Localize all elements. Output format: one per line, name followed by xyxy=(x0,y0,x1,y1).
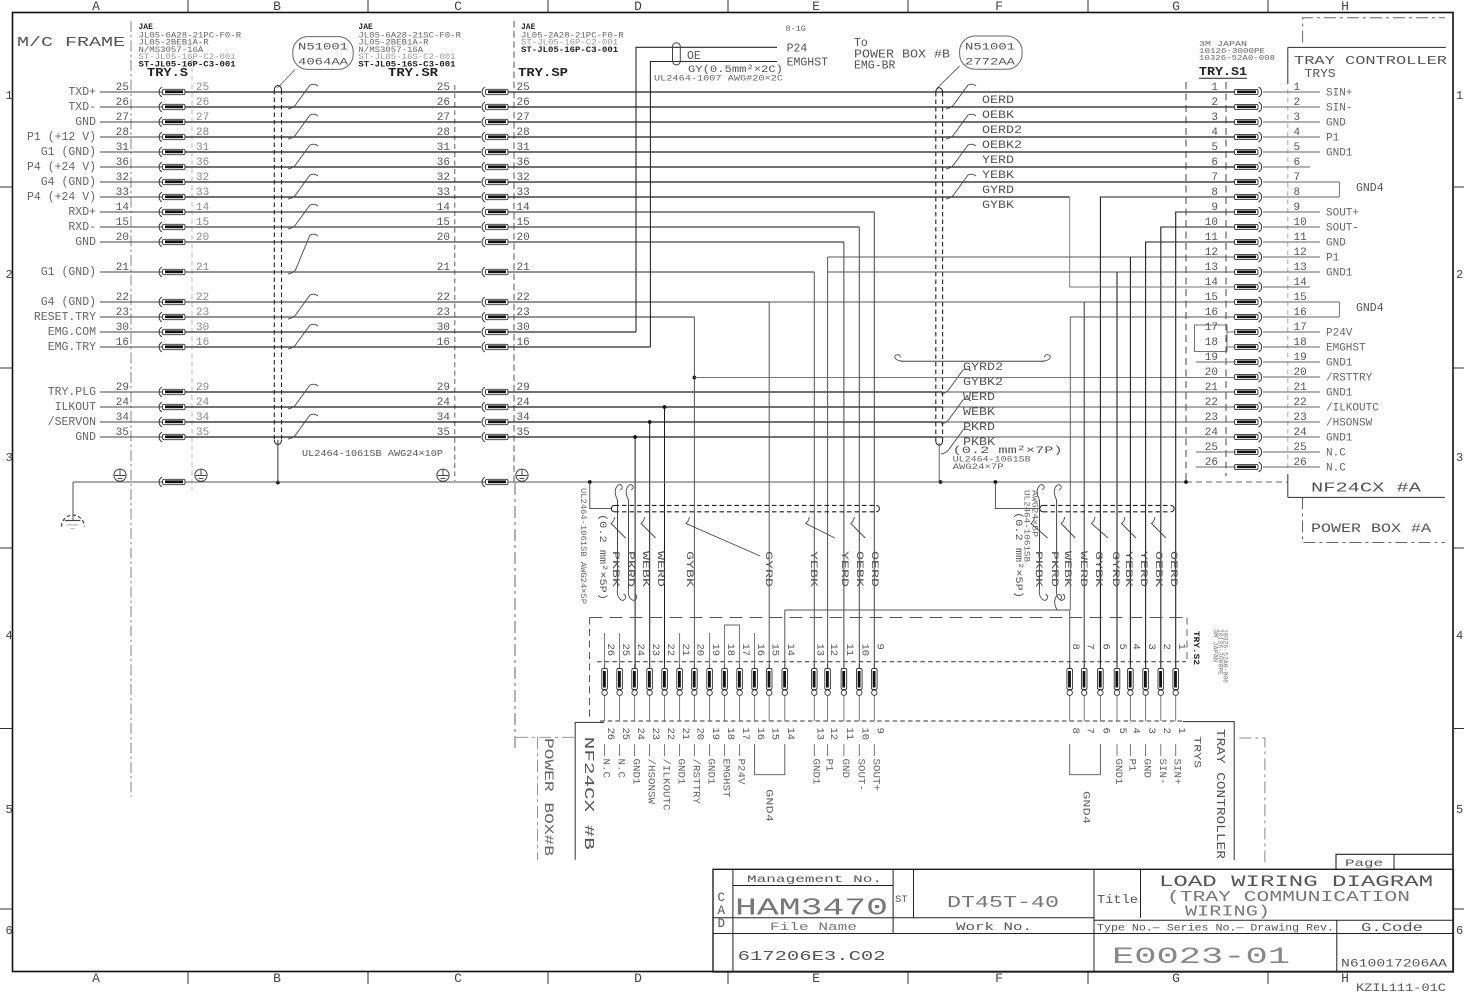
svg-text:2772AA: 2772AA xyxy=(965,57,1016,69)
svg-text:E0023-01: E0023-01 xyxy=(1112,944,1290,970)
svg-text:24: 24 xyxy=(634,728,646,741)
svg-text:SIN-: SIN- xyxy=(1326,102,1352,114)
TRAY CONTROLLER TRYS bottom unit box xyxy=(1183,722,1234,861)
svg-text:14: 14 xyxy=(784,644,796,657)
wire GND1 row to TRY.S1 pin 13 with branch to TRY.S2 pin 5 xyxy=(828,271,1236,273)
svg-text:GND1: GND1 xyxy=(1326,387,1353,399)
grid column tick marks bottom xyxy=(187,972,189,985)
TRY.S2 connector face dashed line xyxy=(597,661,1186,663)
svg-text:/HSONSW: /HSONSW xyxy=(1326,417,1373,429)
TRY.S1 cable side dashed boundary xyxy=(1185,82,1187,481)
svg-text:GND1: GND1 xyxy=(705,759,717,785)
svg-text:GND1: GND1 xyxy=(630,759,642,785)
svg-text:E: E xyxy=(812,0,820,14)
svg-text:YEBK: YEBK xyxy=(807,551,819,588)
bottom enclosure chain line xyxy=(1239,738,1265,866)
wire G1 GND drop to TRY.S2 pin 13 xyxy=(813,272,815,669)
file name header xyxy=(713,933,1453,935)
svg-text:GYBK: GYBK xyxy=(683,551,695,588)
svg-text:UL2464-1007 AWG#20×2C: UL2464-1007 AWG#20×2C xyxy=(654,75,783,84)
svg-text:9: 9 xyxy=(874,728,886,734)
TRY.S2 right dashed boundary xyxy=(1186,618,1188,662)
ground bus wire xyxy=(73,481,1186,483)
wire EMG.TRY up to EMGHST xyxy=(650,62,777,348)
GND4 bracket TRY.S1 pins 15-16 xyxy=(1338,302,1340,317)
svg-text:WERD: WERD xyxy=(654,551,666,587)
svg-text:TRY.S1: TRY.S1 xyxy=(1199,66,1247,79)
svg-text:7: 7 xyxy=(1211,172,1218,184)
svg-text:OEBK: OEBK xyxy=(1152,551,1164,588)
svg-text:PKRD: PKRD xyxy=(963,422,995,434)
shield drain hook on GND4 link wire xyxy=(1055,595,1062,610)
cable jacket dashed pair TRY.SP to TRY.S1 xyxy=(935,92,937,441)
svg-text:TRY.SP: TRY.SP xyxy=(518,66,568,80)
wire SOUT- TRY.S1 pin 10 to TRY.S2 pin 2 xyxy=(1161,227,1236,669)
svg-text:24: 24 xyxy=(634,644,646,657)
svg-text:B: B xyxy=(273,971,281,986)
svg-text:P1: P1 xyxy=(1326,132,1340,144)
ground bus dashed continuation into NF24CX #A xyxy=(1186,481,1288,483)
svg-text:B: B xyxy=(273,0,281,14)
svg-text:3: 3 xyxy=(6,451,13,465)
svg-text:13: 13 xyxy=(814,728,826,741)
svg-text:24: 24 xyxy=(1205,427,1219,439)
svg-text:19: 19 xyxy=(709,728,721,741)
svg-text:21: 21 xyxy=(437,262,451,274)
ground bus junction dots xyxy=(588,480,592,484)
svg-text:11: 11 xyxy=(843,728,855,741)
left band shield drain wire xyxy=(590,482,612,509)
POWER BOX #A enclosure chain xyxy=(1303,497,1445,542)
svg-text:OERD: OERD xyxy=(868,551,880,587)
svg-text:5: 5 xyxy=(1211,142,1218,154)
svg-text:1: 1 xyxy=(6,89,13,103)
svg-text:2: 2 xyxy=(6,268,13,282)
svg-text:15: 15 xyxy=(1205,292,1218,304)
svg-text:6: 6 xyxy=(1211,157,1218,169)
svg-text:OE: OE xyxy=(687,50,701,63)
svg-text:D: D xyxy=(634,971,642,986)
svg-text:SIN-: SIN- xyxy=(1156,759,1168,785)
spare wire with curled ends near TRY.S1 pin 19 row xyxy=(895,355,903,362)
svg-text:POWER BOX #A: POWER BOX #A xyxy=(1311,522,1432,536)
svg-text:PKBK: PKBK xyxy=(963,437,995,449)
svg-text:EMGHST: EMGHST xyxy=(720,759,732,798)
svg-text:SIN+: SIN+ xyxy=(1326,87,1352,99)
TRY.S connector rear dashed boundary xyxy=(191,59,193,490)
svg-text:NF24CX #A: NF24CX #A xyxy=(1311,481,1422,497)
svg-text:UL2464-1061SB: UL2464-1061SB xyxy=(1022,490,1031,562)
wire ILKOUT row 24 junction to TRY.S2 pin 22 xyxy=(663,405,667,409)
TRY.SR connector front dashed boundary xyxy=(454,85,456,481)
svg-text:GYRD: GYRD xyxy=(982,185,1014,197)
svg-text:1: 1 xyxy=(1175,728,1187,734)
svg-text:GYRD: GYRD xyxy=(762,551,774,587)
svg-text:P24V: P24V xyxy=(1326,327,1353,339)
svg-text:(0.2 mm²×5P): (0.2 mm²×5P) xyxy=(596,514,608,600)
svg-text:GND1: GND1 xyxy=(1326,432,1353,444)
svg-text:6: 6 xyxy=(1456,924,1463,938)
M/C frame boundary chain line xyxy=(130,21,132,797)
svg-text:20: 20 xyxy=(437,232,450,244)
svg-text:DT45T-40: DT45T-40 xyxy=(947,894,1059,913)
svg-text:OEBK: OEBK xyxy=(853,551,865,588)
svg-text:OEBK2: OEBK2 xyxy=(982,140,1022,152)
TRY.S1 connector dashed boundary xyxy=(1225,82,1227,476)
wire GND row 35 junction to TRY.S2 pin 24 xyxy=(633,435,637,439)
svg-text:5: 5 xyxy=(1116,644,1128,650)
wire stub TRY.S1 pin 18 xyxy=(1227,346,1236,348)
svg-text:GND1: GND1 xyxy=(809,759,821,785)
svg-text:/SERVON: /SERVON xyxy=(48,416,96,429)
ground bus connector pill at TRY.S xyxy=(159,477,162,487)
svg-text:NF24CX #B: NF24CX #B xyxy=(580,737,595,850)
title block outline xyxy=(713,869,1453,972)
wire RESET.TRY drop to TRY.S2 pin 20 with branch to TRY.S1 pin 20 xyxy=(693,317,695,669)
wire RXD- drop to TRY.S2 pin 10 xyxy=(858,227,860,669)
grid row tick marks right xyxy=(1453,186,1464,188)
svg-text:2: 2 xyxy=(1160,644,1172,650)
svg-text:RXD-: RXD- xyxy=(68,221,96,234)
wire EMG.COM up to P24 xyxy=(636,47,777,332)
svg-text:P4 (+24 V): P4 (+24 V) xyxy=(27,161,96,174)
protective earth symbols on ground bus xyxy=(114,469,126,481)
svg-text:ST: ST xyxy=(895,894,908,906)
svg-text:13: 13 xyxy=(814,644,826,657)
svg-text:OERD2: OERD2 xyxy=(982,125,1022,137)
svg-text:C: C xyxy=(718,891,726,905)
svg-text:P1 (+12 V): P1 (+12 V) xyxy=(27,131,96,144)
svg-text:GND: GND xyxy=(75,116,96,129)
svg-text:SOUT-: SOUT- xyxy=(1326,222,1359,234)
wire GND4 row16 feed TRY.S1 pin 16 from TRY.S2 pin 8 column xyxy=(1070,317,1236,610)
wire G4 GND drop to TRY.S2 pin 15 xyxy=(768,302,770,669)
svg-text:19: 19 xyxy=(709,644,721,657)
svg-text:GND4: GND4 xyxy=(1356,302,1384,315)
svg-text:10: 10 xyxy=(859,644,871,657)
svg-text:A: A xyxy=(92,971,100,986)
svg-text:23: 23 xyxy=(649,644,661,657)
cable shield drain to ground bus xyxy=(277,440,279,482)
svg-text:OERD: OERD xyxy=(982,95,1014,107)
branch GND4 to TRY.S2 pin 7 xyxy=(1083,302,1085,669)
svg-text:TRYS: TRYS xyxy=(1305,68,1336,81)
svg-text:GYBK: GYBK xyxy=(982,200,1014,212)
svg-text:12: 12 xyxy=(1205,247,1218,259)
svg-text:5: 5 xyxy=(6,803,13,817)
svg-text:Work No.: Work No. xyxy=(956,922,1032,934)
svg-text:10326-52A0-008: 10326-52A0-008 xyxy=(1199,55,1275,63)
svg-text:20: 20 xyxy=(694,644,706,657)
svg-text:GND1: GND1 xyxy=(1326,267,1353,279)
svg-text:17: 17 xyxy=(1205,322,1218,334)
svg-text:TRY.S: TRY.S xyxy=(147,66,188,80)
svg-text:H: H xyxy=(1341,971,1349,986)
svg-text:36: 36 xyxy=(437,157,450,169)
svg-text:ILKOUT: ILKOUT xyxy=(55,401,97,414)
svg-text:10: 10 xyxy=(1205,217,1218,229)
svg-text:22: 22 xyxy=(437,292,450,304)
title block CAD column xyxy=(732,869,734,972)
svg-text:YERD: YERD xyxy=(1137,551,1149,587)
svg-text:12: 12 xyxy=(827,644,839,657)
svg-text:5: 5 xyxy=(1116,728,1128,734)
svg-text:GND: GND xyxy=(1326,117,1346,129)
svg-text:6: 6 xyxy=(1100,728,1112,734)
svg-text:2: 2 xyxy=(1160,728,1172,734)
svg-text:File Name: File Name xyxy=(770,922,857,934)
svg-text:25: 25 xyxy=(437,82,450,94)
svg-text:PKRD: PKRD xyxy=(1048,551,1060,587)
svg-text:21: 21 xyxy=(1205,382,1219,394)
svg-text:EMG-BR: EMG-BR xyxy=(854,60,896,73)
svg-text:22: 22 xyxy=(664,644,676,657)
svg-text:17: 17 xyxy=(739,728,751,741)
svg-text:8: 8 xyxy=(1069,644,1081,650)
twisted pair marks below left band xyxy=(611,517,626,538)
TRAY CONTROLLER enclosure chain line top xyxy=(1303,18,1445,43)
svg-text:30: 30 xyxy=(437,322,450,334)
svg-text:ST-JL05-16P-C3-001: ST-JL05-16P-C3-001 xyxy=(521,46,618,55)
svg-text:WERD: WERD xyxy=(963,392,995,404)
svg-text:14: 14 xyxy=(437,202,451,214)
svg-text:PKBK: PKBK xyxy=(609,551,621,588)
svg-text:D: D xyxy=(634,0,642,14)
svg-text:3: 3 xyxy=(1145,644,1157,650)
svg-text:TRY.SR: TRY.SR xyxy=(388,66,439,80)
svg-text:12: 12 xyxy=(827,728,839,741)
svg-text:/RSTTRY: /RSTTRY xyxy=(689,759,701,805)
wire /SERVON row 34 junction to TRY.S2 pin 23 xyxy=(648,420,652,424)
svg-text:E: E xyxy=(812,971,820,986)
svg-text:N51001: N51001 xyxy=(965,42,1015,54)
svg-text:SOUT-: SOUT- xyxy=(854,759,866,792)
svg-text:3: 3 xyxy=(1211,112,1218,124)
TRY.S2 outer dashed boundary xyxy=(590,617,1187,619)
GND4 bracket TRY.S2 pins 6-8 xyxy=(1070,744,1101,775)
TRY.S1 mating side dashed boundary xyxy=(1287,89,1289,472)
wire GND TRY.S1 pin 11 to TRY.S2 pin 3 xyxy=(1146,242,1236,669)
svg-text:HAM3470: HAM3470 xyxy=(735,896,888,923)
svg-text:P24: P24 xyxy=(787,43,808,56)
grid column tick marks top xyxy=(187,0,189,13)
svg-text:7: 7 xyxy=(1083,644,1095,650)
svg-text:23: 23 xyxy=(649,728,661,741)
svg-text:F: F xyxy=(995,0,1003,14)
TRAY CONTROLLER TRYS unit box xyxy=(1288,46,1446,48)
svg-text:21: 21 xyxy=(679,644,691,657)
svg-text:33: 33 xyxy=(437,187,450,199)
spare pair PKBK PKRD dangling wires right band xyxy=(1037,485,1044,500)
ground bus connector pill at TRY.SR xyxy=(482,477,485,487)
GND4 bracket TRY.S1 pins 7-8 xyxy=(1338,182,1340,197)
cable jacket band to TRY.S2 right group xyxy=(1043,504,1171,506)
svg-text:16: 16 xyxy=(754,728,766,741)
svg-text:6: 6 xyxy=(1100,644,1112,650)
svg-text:20: 20 xyxy=(1205,367,1218,379)
svg-text:/HSONSW: /HSONSW xyxy=(645,759,657,805)
svg-text:10: 10 xyxy=(859,728,871,741)
svg-text:15: 15 xyxy=(768,644,780,657)
svg-text:TRY.PLG: TRY.PLG xyxy=(48,386,96,399)
G code header xyxy=(1336,920,1338,972)
svg-text:15: 15 xyxy=(768,728,780,741)
svg-text:P4 (+24 V): P4 (+24 V) xyxy=(27,191,96,204)
svg-text:26: 26 xyxy=(604,644,616,657)
svg-text:TRY.S2: TRY.S2 xyxy=(1191,631,1201,665)
svg-text:/RSTTRY: /RSTTRY xyxy=(1326,372,1373,384)
svg-text:23: 23 xyxy=(1205,412,1218,424)
OE cable jacket symbol xyxy=(673,43,681,65)
svg-text:/ILKOUTC: /ILKOUTC xyxy=(660,759,672,811)
svg-text:16: 16 xyxy=(754,644,766,657)
svg-text:WERD: WERD xyxy=(1077,551,1089,587)
svg-text:N.C: N.C xyxy=(615,759,627,779)
svg-text:POWER BOX#B: POWER BOX#B xyxy=(541,738,555,857)
svg-text:11: 11 xyxy=(1205,232,1219,244)
svg-text:WEBK: WEBK xyxy=(639,551,651,588)
svg-text:13: 13 xyxy=(1205,262,1218,274)
svg-text:GYRD2: GYRD2 xyxy=(963,362,1003,374)
svg-text:N.C: N.C xyxy=(1326,447,1346,459)
svg-text:27: 27 xyxy=(437,112,450,124)
P24V EMGHST pair bracket TRY.S1 pins 17-18 xyxy=(1195,325,1228,352)
svg-text:EMGHST: EMGHST xyxy=(1326,342,1366,354)
svg-text:8: 8 xyxy=(1211,187,1218,199)
svg-text:GND4: GND4 xyxy=(1080,791,1092,824)
title block management number cell xyxy=(733,885,893,887)
title block middle divider xyxy=(713,917,1094,919)
svg-text:35: 35 xyxy=(437,427,450,439)
svg-text:14: 14 xyxy=(784,728,796,741)
wire GND4 TRY.S1 pin 8 to TRY.S2 pin 6 xyxy=(1100,197,1236,669)
svg-text:8-1G: 8-1G xyxy=(786,24,806,34)
svg-text:7: 7 xyxy=(1083,728,1095,734)
svg-text:EMG.COM: EMG.COM xyxy=(48,326,96,339)
svg-text:YERD: YERD xyxy=(982,155,1014,167)
svg-text:UL2464-1061SB AWG24×5P: UL2464-1061SB AWG24×5P xyxy=(578,488,587,604)
svg-text:GND1: GND1 xyxy=(1326,147,1353,159)
svg-text:14: 14 xyxy=(1205,277,1219,289)
svg-text:16: 16 xyxy=(1205,307,1218,319)
TRY.S2 left dashed boundary xyxy=(589,618,591,722)
svg-text:23: 23 xyxy=(437,307,450,319)
svg-text:Title: Title xyxy=(1097,894,1138,907)
svg-text:G4 (GND): G4 (GND) xyxy=(41,296,96,309)
svg-text:C: C xyxy=(454,971,462,986)
svg-text:G: G xyxy=(1172,971,1180,986)
svg-text:9: 9 xyxy=(1211,202,1218,214)
svg-text:15: 15 xyxy=(437,217,450,229)
svg-text:GND: GND xyxy=(75,431,96,444)
svg-text:YERD: YERD xyxy=(838,551,850,587)
svg-text:AWG24×5P: AWG24×5P xyxy=(1030,490,1039,537)
twisted pair marks after cable upper group xyxy=(946,84,976,109)
svg-text:D: D xyxy=(718,917,726,931)
svg-text:G: G xyxy=(1172,0,1180,14)
svg-text:5: 5 xyxy=(1456,803,1463,817)
svg-text:617206E3.C02: 617206E3.C02 xyxy=(738,950,886,965)
svg-text:GND: GND xyxy=(1141,759,1153,779)
wire G4 GND continues to TRY.S1 pin 15 xyxy=(769,301,1236,303)
svg-text:GND: GND xyxy=(75,236,96,249)
svg-text:10326-52A0-008: 10326-52A0-008 xyxy=(1222,629,1229,683)
GND4 bracket TRY.S2 pins 14-16 xyxy=(755,744,785,775)
svg-text:G1 (GND): G1 (GND) xyxy=(41,266,96,279)
svg-text:4: 4 xyxy=(6,629,13,643)
svg-text:WEBK: WEBK xyxy=(963,407,995,419)
P24V EMGHST pair bracket TRY.S2 pins 17-18 xyxy=(725,625,740,664)
wire P1 row to TRY.S1 pin 12 with branch to TRY.S2 pin 4 xyxy=(828,256,1236,258)
svg-text:29: 29 xyxy=(437,382,450,394)
svg-text:EMGHST: EMGHST xyxy=(787,57,829,70)
svg-text:H: H xyxy=(1341,0,1349,14)
svg-text:TXD+: TXD+ xyxy=(68,86,96,99)
cable jacket band TRY.SP to TRY.S2 left group xyxy=(615,504,877,506)
svg-text:Page: Page xyxy=(1345,858,1383,870)
svg-text:G.Code: G.Code xyxy=(1361,922,1423,935)
svg-text:YEBK: YEBK xyxy=(1122,551,1134,588)
svg-text:6: 6 xyxy=(6,924,13,938)
svg-text:SIN+: SIN+ xyxy=(1171,759,1183,785)
svg-text:4: 4 xyxy=(1130,728,1142,734)
wire GND4 link TRY.S2 pin 14 to pin 8 xyxy=(785,610,1070,669)
svg-text:P1: P1 xyxy=(823,759,835,772)
svg-text:G1 (GND): G1 (GND) xyxy=(41,146,96,159)
svg-text:TRYS: TRYS xyxy=(1191,736,1203,768)
wire stub TRY.S1 pin 17 xyxy=(1227,331,1236,333)
wire SOUT+ TRY.S1 pin 9 to TRY.S2 pin 1 xyxy=(1176,212,1236,669)
cable jacket dashed pair between TRY.S and TRY.SR xyxy=(273,90,275,440)
twisted pair marks in cable TRY.S to TRY.SR xyxy=(288,84,318,109)
NF24CX #B unit box corner xyxy=(575,722,604,859)
svg-text:18: 18 xyxy=(724,728,736,741)
svg-text:GYBK2: GYBK2 xyxy=(963,377,1003,389)
svg-text:G4 (GND): G4 (GND) xyxy=(41,176,96,189)
svg-text:9: 9 xyxy=(874,644,886,650)
svg-text:11: 11 xyxy=(843,644,855,657)
svg-text:24: 24 xyxy=(437,397,451,409)
POWER BOX #B label enclosure chain xyxy=(516,736,575,738)
wire /RSTTRY branch to TRY.S1 pin 20 xyxy=(694,377,1236,379)
svg-text:4: 4 xyxy=(1130,644,1142,650)
svg-text:P1: P1 xyxy=(1326,252,1340,264)
svg-text:GND: GND xyxy=(1326,237,1346,249)
svg-text:22: 22 xyxy=(1205,397,1218,409)
svg-text:P24V: P24V xyxy=(735,759,747,786)
wire RXD+ drop to TRY.S2 pin 9 xyxy=(873,212,875,669)
svg-text:N610017206AA: N610017206AA xyxy=(1341,959,1448,971)
svg-text:1: 1 xyxy=(1175,644,1187,650)
svg-text:C: C xyxy=(454,0,462,14)
svg-text:P1: P1 xyxy=(1125,759,1137,772)
svg-text:M/C FRAME: M/C FRAME xyxy=(17,35,125,51)
svg-text:1: 1 xyxy=(1456,89,1463,103)
svg-text:Management No.: Management No. xyxy=(747,874,882,886)
svg-text:34: 34 xyxy=(437,412,451,424)
svg-text:22: 22 xyxy=(664,728,676,741)
svg-text:TXD-: TXD- xyxy=(68,101,96,114)
svg-text:28: 28 xyxy=(437,127,450,139)
earth ground symbol xyxy=(72,482,74,520)
svg-text:Type No.— Series No.— Drawing: Type No.— Series No.— Drawing Rev. xyxy=(1097,923,1334,935)
svg-text:A: A xyxy=(92,0,100,14)
svg-text:18: 18 xyxy=(1205,337,1218,349)
POWER BOX #B enclosure chain line xyxy=(514,483,516,748)
svg-text:25: 25 xyxy=(619,728,631,741)
svg-text:WEBK: WEBK xyxy=(1061,551,1073,588)
svg-text:20: 20 xyxy=(694,728,706,741)
